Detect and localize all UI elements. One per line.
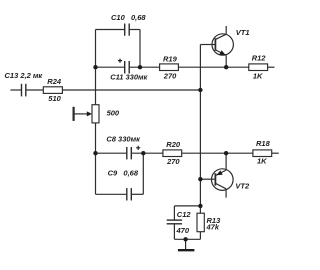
label C8 polarity plus (136, 146, 140, 150)
wire bottom loop bottom left segment (96, 193, 127, 195)
svg-text:C9 0,68: C9 0,68 (108, 169, 139, 178)
capacitor C13 (22, 84, 26, 97)
svg-text:500: 500 (107, 109, 120, 118)
svg-text:1K: 1K (253, 71, 263, 80)
resistor R19 (160, 64, 179, 71)
wire C8 to R20 (131, 152, 163, 154)
wire R19 to VT1 emitter node (178, 66, 248, 68)
svg-text:47k: 47k (206, 222, 220, 231)
wire bottom loop bottom right segment (131, 193, 143, 195)
wire top loop top right segment (129, 29, 140, 31)
wire bottom rail (174, 238, 200, 240)
node top loop right (138, 65, 142, 69)
capacitor C9 (127, 188, 132, 200)
svg-text:VT1: VT1 (236, 28, 250, 37)
resistor R13 (197, 213, 204, 232)
node VT2 base junction (198, 177, 202, 181)
svg-text:R24: R24 (47, 77, 62, 86)
transistor VT1 (200, 26, 233, 67)
svg-text:C8 330мк: C8 330мк (106, 135, 141, 144)
resistor R12 (249, 64, 268, 71)
ground (178, 239, 195, 250)
resistor R20 (163, 150, 182, 157)
node input junction (198, 88, 202, 92)
trimmer potentiometer 500 (74, 105, 99, 123)
wire R12 right stub (268, 66, 275, 68)
svg-text:VT2: VT2 (235, 181, 250, 190)
node VT2 emitter junction (224, 151, 228, 155)
svg-text:1K: 1K (257, 157, 267, 166)
wire C11 to R19 (129, 66, 159, 68)
node ground junction (183, 237, 187, 241)
capacitor C8 (127, 147, 132, 159)
capacitor C11 (125, 61, 130, 74)
wire C12 left vertical top (173, 206, 175, 220)
wire R18 right stub (272, 152, 279, 154)
wire C12 branch top (174, 205, 200, 207)
svg-text:C13 2,2 мк: C13 2,2 мк (5, 71, 44, 80)
transistor VT2 (200, 153, 233, 197)
svg-text:270: 270 (166, 157, 180, 166)
svg-text:R18: R18 (256, 139, 271, 148)
capacitor C10 (125, 24, 130, 36)
svg-text:R12: R12 (252, 54, 267, 63)
wire potentiometer bottom vertical (95, 123, 97, 194)
resistor R18 (253, 150, 272, 157)
wire node A to C11 (96, 66, 125, 68)
svg-text:C12: C12 (177, 210, 192, 219)
svg-text:270: 270 (163, 71, 177, 80)
wire C13 to R24 (27, 89, 44, 91)
wire input left segment (10, 89, 21, 91)
wire R20 to VT2 collector node (182, 152, 253, 154)
svg-text:510: 510 (48, 94, 61, 103)
node VT1 emitter junction (224, 65, 228, 69)
node bottom loop left (93, 151, 97, 155)
wire bottom loop node to C8 (96, 152, 127, 154)
resistor R24 (43, 87, 62, 94)
wire bottom loop right vertical (142, 153, 144, 194)
svg-text:470: 470 (176, 226, 190, 235)
wire top loop right vertical (139, 30, 141, 68)
svg-text:R19: R19 (163, 54, 178, 63)
node C12 R13 junction (198, 204, 202, 208)
wire R13 bottom stub (199, 232, 201, 240)
wire top loop left vertical (95, 30, 97, 105)
wire central vertical (199, 45, 201, 214)
label C11 polarity plus (118, 59, 122, 63)
wire C12 left vertical bottom (173, 224, 175, 239)
svg-text:C11 330мк: C11 330мк (110, 73, 148, 82)
capacitor C12 (167, 220, 182, 224)
svg-text:C10 0,68: C10 0,68 (111, 13, 146, 22)
node bottom loop right (141, 151, 145, 155)
wire top loop top left segment (96, 29, 125, 31)
svg-text:R20: R20 (166, 140, 181, 149)
node top loop left (93, 65, 97, 69)
wire R24 to central node (62, 89, 200, 91)
